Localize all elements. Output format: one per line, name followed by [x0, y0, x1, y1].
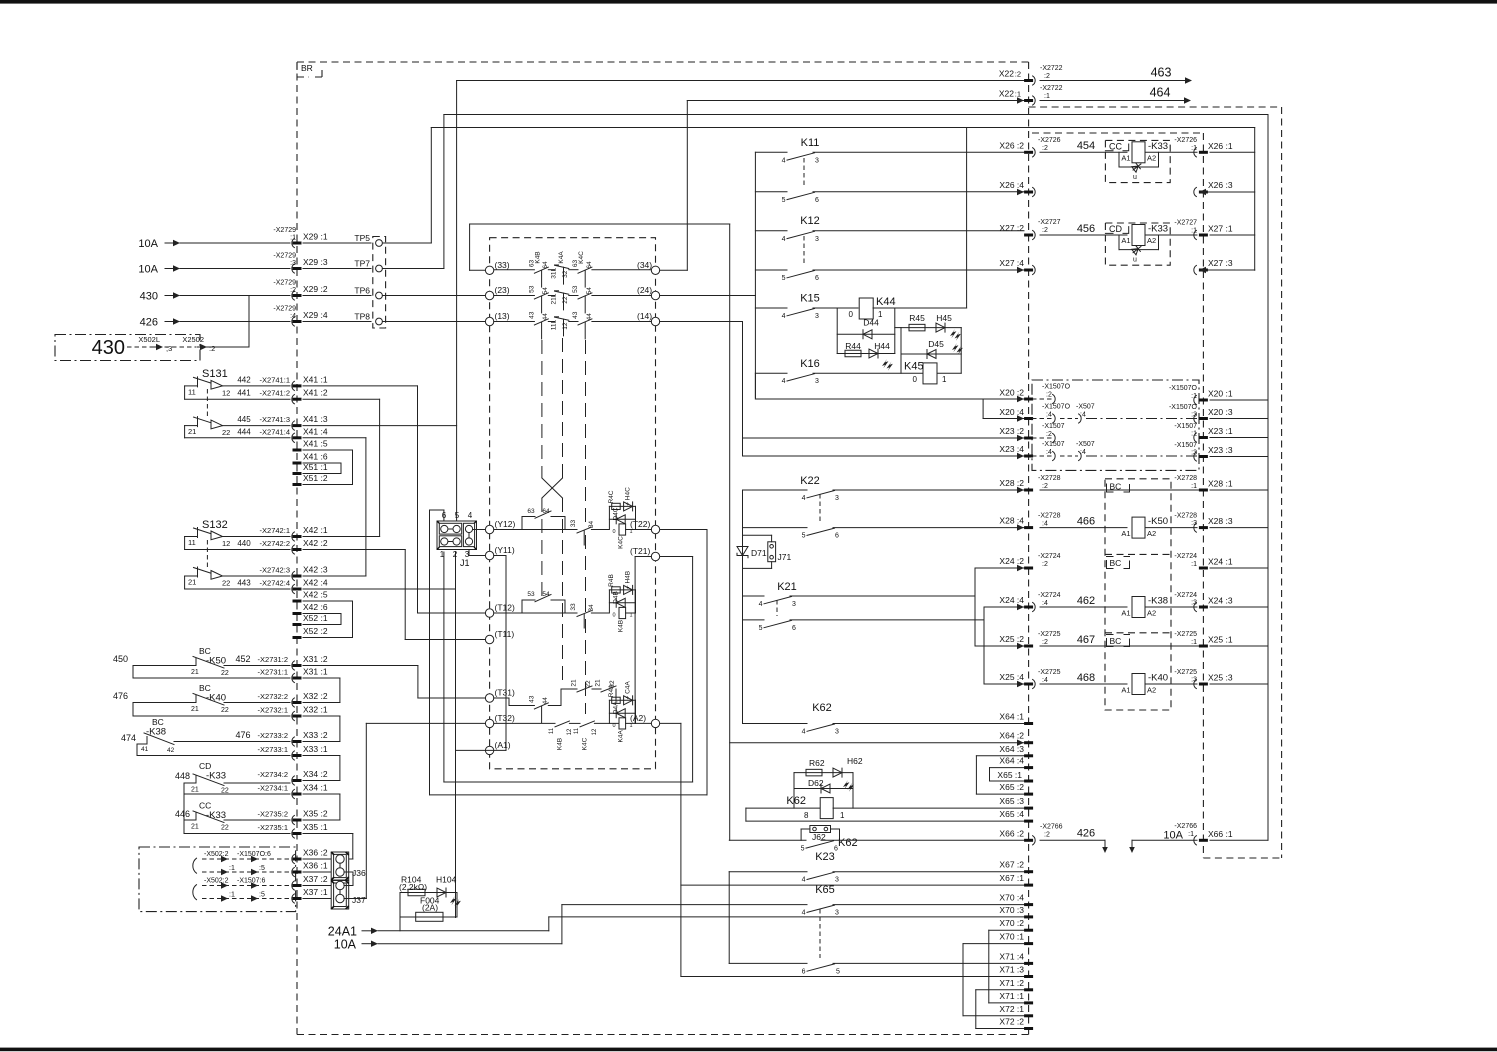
svg-text:H104: H104	[436, 875, 457, 885]
riser A2 to X71:3	[660, 722, 681, 724]
top border bar	[0, 0, 1497, 4]
svg-text:-X2731:1: -X2731:1	[258, 668, 288, 677]
svg-text::1: :1	[1044, 93, 1050, 100]
svg-text:X42 :2: X42 :2	[303, 538, 328, 548]
svg-text:X33 :1: X33 :1	[303, 744, 328, 754]
right rail x1268 down	[1267, 115, 1269, 841]
svg-text:-X2725: -X2725	[1038, 631, 1061, 638]
bracket X33 rows	[136, 744, 138, 756]
svg-text:X28 :2: X28 :2	[999, 478, 1024, 488]
svg-text::2: :2	[1042, 145, 1048, 152]
supply rail y127 from TP5	[431, 127, 1254, 129]
svg-text:X70 :3: X70 :3	[999, 905, 1024, 915]
svg-text:H44: H44	[874, 341, 890, 351]
wire X22:2 row to 463	[457, 80, 1024, 82]
svg-text:24A1: 24A1	[328, 925, 357, 939]
relay coil K33 upper	[1132, 142, 1145, 163]
row 782 to T21 riser	[444, 781, 693, 783]
svg-text:CC: CC	[199, 801, 211, 811]
K44 riser to rail127	[966, 128, 968, 309]
svg-text:X66 :1: X66 :1	[1208, 829, 1233, 839]
svg-text:-X2741:1: -X2741:1	[260, 375, 290, 384]
K22 contact 5-6	[743, 527, 808, 529]
svg-text:21: 21	[191, 824, 199, 831]
svg-text:K62: K62	[812, 702, 832, 714]
svg-text:R4A: R4A	[608, 684, 615, 697]
wire X65:2	[976, 793, 1024, 795]
stub X41:6	[293, 462, 302, 465]
X502 dash-dot harness box lower left	[139, 847, 296, 912]
svg-text:42: 42	[167, 747, 175, 754]
svg-text:(T21): (T21)	[630, 546, 650, 556]
svg-text:-X2729: -X2729	[273, 227, 296, 234]
loop X41:6 to X51:1	[340, 463, 342, 474]
K62 contact 5-6	[729, 839, 806, 841]
svg-text:3: 3	[835, 495, 839, 502]
svg-text:0: 0	[612, 613, 615, 619]
svg-text:4: 4	[802, 729, 806, 736]
wire X20:4 row	[983, 418, 1024, 420]
bracket X71:2 X72:2	[975, 990, 977, 1029]
wire X25:4 row	[984, 683, 1024, 685]
svg-text:BC: BC	[1110, 636, 1122, 646]
svg-text:X26 :3: X26 :3	[1208, 180, 1233, 190]
svg-text:X36 :2: X36 :2	[303, 848, 328, 858]
svg-text:41: 41	[141, 746, 149, 753]
svg-text:3: 3	[815, 378, 819, 385]
BC tab K50	[1107, 484, 1130, 492]
svg-text:K21: K21	[777, 581, 797, 593]
test point block TP5-TP8	[373, 237, 386, 329]
row extensions from left connectors to risers	[303, 385, 418, 387]
svg-text:CD: CD	[1109, 224, 1122, 234]
wire TP7 up to rail 114	[382, 268, 444, 270]
BR label tab	[297, 62, 322, 77]
svg-text:X42 :6: X42 :6	[303, 602, 328, 612]
jumper J62	[810, 826, 831, 833]
row T12 left from riser	[418, 612, 486, 614]
stub X41:5	[293, 449, 302, 452]
svg-text:X20 :2: X20 :2	[999, 387, 1024, 397]
svg-text:K65: K65	[815, 884, 835, 896]
svg-text:-K33: -K33	[1148, 141, 1168, 152]
svg-text:J37: J37	[352, 895, 366, 905]
svg-text:BC: BC	[152, 717, 164, 727]
svg-text:10A: 10A	[334, 938, 357, 952]
wire X24:4 row	[984, 606, 1024, 608]
svg-text:-K40: -K40	[1148, 672, 1168, 683]
row 794.9 to T22 riser	[430, 794, 708, 796]
svg-text:(Y11): (Y11)	[495, 545, 515, 555]
svg-text::2: :2	[1042, 227, 1048, 234]
switch S131 contacts 11-12	[185, 385, 198, 387]
wire X34:1	[184, 793, 290, 795]
svg-text:(2A): (2A)	[422, 903, 438, 913]
svg-text:22: 22	[222, 428, 230, 437]
svg-text:4: 4	[782, 157, 786, 164]
svg-text:K4B: K4B	[557, 738, 564, 750]
svg-text:A1: A1	[1121, 154, 1130, 163]
svg-text:X28 :4: X28 :4	[999, 516, 1024, 526]
svg-text:4: 4	[759, 601, 763, 608]
wire X64:3	[976, 755, 1024, 757]
svg-text:X34 :1: X34 :1	[303, 783, 328, 793]
wire X23:4 row	[743, 455, 1025, 457]
svg-text:34: 34	[588, 604, 595, 612]
svg-text:-X2731:2: -X2731:2	[258, 655, 288, 664]
svg-text:X64 :2: X64 :2	[999, 731, 1024, 741]
K44 suppression network box	[836, 308, 838, 354]
wire 34 up to X22:1	[660, 269, 688, 271]
wire X32:1	[133, 715, 290, 717]
relay coil K33 lower	[1132, 225, 1145, 246]
svg-text:446: 446	[175, 809, 190, 819]
svg-text:K23: K23	[815, 851, 835, 863]
svg-text:R62: R62	[809, 758, 825, 768]
wire X33:1	[137, 755, 290, 757]
svg-text:A1: A1	[1121, 529, 1130, 538]
svg-text::5: :5	[259, 865, 265, 872]
svg-text:X27 :2: X27 :2	[999, 223, 1024, 233]
node 33 stub	[470, 269, 486, 271]
svg-text::2: :2	[1042, 561, 1048, 568]
K21 linkage dashes	[776, 600, 778, 616]
svg-text:X65 :1: X65 :1	[997, 770, 1022, 780]
switch S131 contacts 21-22	[185, 425, 198, 427]
svg-text:X27 :3: X27 :3	[1208, 258, 1233, 268]
svg-text:-X2728: -X2728	[1174, 475, 1197, 482]
svg-text:X27 :4: X27 :4	[999, 258, 1024, 268]
svg-text:X28 :1: X28 :1	[1208, 479, 1233, 489]
svg-text:476: 476	[235, 730, 250, 740]
svg-text:4: 4	[802, 910, 806, 917]
bracket X64:4 X65:1	[989, 768, 991, 781]
svg-text:X70 :1: X70 :1	[999, 932, 1024, 942]
right rail x1255 down	[1254, 128, 1256, 271]
svg-text:53: 53	[527, 591, 535, 598]
svg-text:6: 6	[802, 968, 806, 975]
svg-text:X71 :2: X71 :2	[999, 978, 1024, 988]
svg-text:2: 2	[453, 550, 458, 559]
svg-text:-X502:2: -X502:2	[204, 878, 229, 885]
svg-text:X72 :1: X72 :1	[999, 1004, 1024, 1014]
svg-text::1: :1	[1191, 561, 1197, 568]
svg-text::5: :5	[259, 892, 265, 899]
svg-text:X34 :2: X34 :2	[303, 769, 328, 779]
relay coil K50	[1040, 527, 1127, 529]
svg-text:X2502: X2502	[182, 335, 204, 344]
svg-text:-X2766: -X2766	[1040, 824, 1063, 831]
svg-text::2: :2	[1042, 483, 1048, 490]
svg-text:K4B: K4B	[535, 251, 542, 263]
svg-text:X41 :4: X41 :4	[303, 426, 328, 436]
svg-text:D4A: D4A	[613, 701, 620, 714]
svg-text:X41 :5: X41 :5	[303, 439, 328, 449]
svg-text:448: 448	[175, 771, 190, 781]
svg-text:(A2): (A2)	[630, 713, 646, 723]
svg-text:X33 :2: X33 :2	[303, 730, 328, 740]
svg-text:K4C: K4C	[578, 251, 585, 264]
svg-text:X36 :1: X36 :1	[303, 861, 328, 871]
svg-text:X35 :1: X35 :1	[303, 822, 328, 832]
wire X20:2 row	[754, 373, 756, 399]
pair parens	[193, 858, 197, 873]
svg-text::1: :1	[1191, 639, 1197, 646]
svg-text:(24): (24)	[637, 285, 652, 295]
BR enclosure dashed box	[296, 62, 298, 1035]
svg-text:21: 21	[571, 679, 578, 687]
svg-text:6: 6	[792, 625, 796, 632]
svg-text::2: :2	[1044, 73, 1050, 80]
svg-text:-X2729: -X2729	[273, 306, 296, 313]
K22 linkage dashes	[819, 494, 821, 524]
link J36 to J37	[344, 871, 353, 873]
svg-text:X23 :1: X23 :1	[1208, 426, 1233, 436]
svg-text:u: u	[1133, 174, 1137, 181]
K21 contact 5-6	[743, 619, 765, 621]
svg-text:X41 :6: X41 :6	[303, 452, 328, 462]
svg-text:K22: K22	[800, 475, 820, 487]
svg-text::1: :1	[290, 235, 296, 242]
svg-text:4: 4	[782, 378, 786, 385]
stub X52:2	[293, 636, 302, 639]
svg-text:3: 3	[815, 157, 819, 164]
svg-text:BC: BC	[199, 683, 211, 693]
svg-text:X25 :2: X25 :2	[999, 634, 1024, 644]
svg-text:X42 :5: X42 :5	[303, 590, 328, 600]
svg-text::2: :2	[1044, 832, 1050, 839]
svg-text:12: 12	[562, 322, 569, 330]
svg-text:BC: BC	[1110, 482, 1122, 492]
svg-text:12: 12	[592, 728, 598, 735]
svg-text:-X2733:1: -X2733:1	[258, 745, 288, 754]
svg-text:444: 444	[237, 427, 251, 436]
wire X24:2	[975, 567, 1024, 569]
stub X42:5	[293, 600, 302, 603]
svg-text:-X1507O: -X1507O	[1169, 385, 1198, 392]
wire X70:1	[963, 943, 1024, 945]
svg-text:33: 33	[570, 603, 577, 611]
svg-text:X64 :1: X64 :1	[999, 712, 1024, 722]
svg-text:463: 463	[1151, 66, 1172, 80]
svg-text:-X2726: -X2726	[1038, 137, 1061, 144]
svg-text:44: 44	[586, 313, 593, 321]
svg-text:12: 12	[222, 539, 230, 548]
svg-text:31L: 31L	[550, 267, 557, 278]
svg-text:467: 467	[1077, 634, 1095, 646]
svg-text:-X2728: -X2728	[1174, 513, 1197, 520]
BC tab K38	[1107, 557, 1130, 569]
svg-text::3: :3	[290, 260, 296, 267]
riser T32 row to J37	[344, 898, 366, 900]
svg-text:-X2727: -X2727	[1174, 220, 1197, 227]
svg-text::2: :2	[1046, 431, 1052, 438]
svg-text:K44: K44	[876, 296, 896, 308]
svg-text:33: 33	[570, 520, 577, 528]
svg-text:BC: BC	[199, 646, 211, 656]
svg-text::1: :1	[1188, 831, 1194, 838]
svg-text:-K38: -K38	[146, 727, 166, 738]
row X64:2 elbow from node 33	[469, 224, 471, 270]
svg-text:S131: S131	[202, 368, 228, 380]
svg-text:-X2724: -X2724	[1038, 553, 1061, 560]
svg-text:-X2725: -X2725	[1038, 669, 1061, 676]
svg-text:TP7: TP7	[354, 258, 370, 268]
svg-text:450: 450	[113, 654, 128, 664]
svg-text:3: 3	[792, 601, 796, 608]
connectors X36 X37	[292, 854, 295, 863]
svg-text:X31 :2: X31 :2	[303, 654, 328, 664]
loop X42:6 to X52:1	[340, 614, 342, 625]
svg-text:K4A: K4A	[617, 730, 624, 743]
R104 box verticals	[399, 893, 401, 931]
row T11 stub	[405, 639, 485, 641]
svg-text::2: :2	[1046, 391, 1052, 398]
svg-text:6: 6	[815, 275, 819, 282]
svg-text:5: 5	[455, 511, 460, 520]
svg-text:21L: 21L	[550, 293, 557, 304]
linkage crossover	[542, 478, 563, 498]
svg-text:X29 :1: X29 :1	[303, 232, 328, 242]
svg-text:(Y12): (Y12)	[495, 519, 516, 529]
svg-text:5: 5	[782, 275, 786, 282]
svg-text:-X2741:4: -X2741:4	[260, 427, 290, 436]
svg-text:A2: A2	[1147, 236, 1156, 245]
svg-text:R45: R45	[909, 313, 925, 323]
brackets chaining X31..X35 rows	[339, 678, 341, 703]
svg-text:64: 64	[542, 261, 549, 269]
svg-text:J1: J1	[460, 558, 470, 568]
connector X29:4	[292, 317, 295, 326]
svg-text:K12: K12	[800, 215, 820, 227]
svg-text:D4B: D4B	[613, 591, 620, 604]
relay coil K44	[859, 298, 873, 319]
K65 linkage dashes	[819, 909, 821, 958]
svg-text:-X2732:1: -X2732:1	[258, 706, 288, 715]
svg-text:X41 :2: X41 :2	[303, 388, 328, 398]
svg-text:-X2727: -X2727	[1038, 219, 1061, 226]
svg-text:468: 468	[1077, 672, 1095, 684]
row 23-24 contacts	[494, 295, 535, 297]
svg-text:3: 3	[835, 729, 839, 736]
svg-text:430: 430	[140, 291, 158, 303]
svg-text:D44: D44	[863, 318, 879, 328]
svg-text:(T31): (T31)	[495, 688, 515, 698]
BC tab K40	[1107, 635, 1130, 647]
svg-text:464: 464	[1150, 86, 1171, 100]
svg-text:54: 54	[586, 287, 593, 295]
K45 suppression network box	[900, 328, 902, 374]
svg-text:22: 22	[585, 680, 592, 688]
wire X65:4	[746, 820, 1024, 822]
raised bridge contact 63-64	[521, 517, 523, 530]
svg-text:443: 443	[237, 579, 251, 588]
svg-text:-X2725: -X2725	[1174, 669, 1197, 676]
svg-text:5: 5	[836, 968, 840, 975]
svg-text:X42 :1: X42 :1	[303, 525, 328, 535]
svg-text:X71 :3: X71 :3	[999, 965, 1024, 975]
svg-text:(T32): (T32)	[495, 713, 515, 723]
svg-text::2: :2	[1015, 70, 1021, 79]
svg-text:X26 :1: X26 :1	[1208, 141, 1233, 151]
row T31 step to contact level	[494, 697, 509, 699]
K4 linkage long-dash columns	[541, 340, 543, 478]
svg-text::4: :4	[1080, 449, 1086, 456]
svg-text:426: 426	[1077, 828, 1095, 840]
svg-text::2: :2	[209, 344, 215, 353]
svg-text:4: 4	[802, 877, 806, 884]
svg-text:X65 :3: X65 :3	[999, 796, 1024, 806]
svg-text:21: 21	[595, 679, 602, 687]
bracket X70:1 X72:1	[962, 944, 964, 1016]
svg-text:X52 :1: X52 :1	[303, 613, 328, 623]
bottom border bar	[0, 1048, 1497, 1052]
loop X42:5 to X52:2	[352, 601, 354, 638]
connector X29:1	[292, 238, 295, 247]
svg-text:43: 43	[528, 311, 535, 319]
svg-text:X70 :2: X70 :2	[999, 918, 1024, 928]
svg-text:34: 34	[588, 521, 595, 529]
wire X25:2	[975, 645, 1024, 647]
riser X22:2 X41:3 J1 pin5	[456, 81, 458, 524]
svg-text:H62: H62	[847, 756, 863, 766]
svg-text:-X1507O: -X1507O	[1169, 404, 1198, 411]
svg-text:54: 54	[542, 287, 549, 295]
svg-text:0: 0	[849, 310, 854, 319]
svg-text:-X2732:2: -X2732:2	[258, 692, 288, 701]
switch S132 contacts 21-22	[185, 575, 198, 577]
wire X70:2	[989, 929, 1024, 931]
svg-text:X29 :4: X29 :4	[303, 310, 328, 320]
svg-text:X31 :1: X31 :1	[303, 667, 328, 677]
svg-text:1: 1	[942, 375, 947, 384]
Y12 stub to J1	[473, 529, 486, 531]
svg-text:12: 12	[222, 388, 230, 397]
bracket X65:3 X65:4	[745, 808, 747, 821]
riser J1 pin2 to A1 and H104	[455, 552, 457, 918]
svg-text:;3: ;3	[166, 344, 172, 353]
svg-text:-X2722: -X2722	[1040, 85, 1063, 92]
svg-text:-X2728: -X2728	[1038, 513, 1061, 520]
K11 linkage dashes	[803, 158, 805, 186]
right cab enclosure dashed box	[1029, 106, 1282, 108]
svg-text:22: 22	[222, 579, 230, 588]
row T32 left to riser	[366, 722, 485, 724]
svg-text:44: 44	[542, 697, 549, 705]
svg-text:462: 462	[1077, 595, 1095, 607]
svg-text:54: 54	[542, 591, 550, 598]
svg-text:3: 3	[835, 910, 839, 917]
svg-text:X22: X22	[999, 89, 1014, 99]
430 dash-dot box	[55, 335, 200, 361]
svg-text:X22: X22	[999, 69, 1014, 79]
svg-text:21: 21	[188, 427, 196, 436]
svg-text:X502L: X502L	[138, 335, 160, 344]
svg-text:21: 21	[191, 669, 199, 676]
svg-text:X20 :4: X20 :4	[999, 407, 1024, 417]
svg-text:11L: 11L	[550, 320, 557, 331]
svg-text:X41 :1: X41 :1	[303, 374, 328, 384]
K33 suppression loop	[1118, 152, 1120, 167]
svg-text:-X507: -X507	[1076, 441, 1095, 448]
svg-text:X64 :3: X64 :3	[999, 744, 1024, 754]
svg-text:-X2742:4: -X2742:4	[260, 579, 290, 588]
jumper block J37	[331, 881, 349, 910]
svg-text:K4A: K4A	[558, 251, 565, 264]
relay coil K45	[923, 363, 937, 384]
wire X71:3	[681, 976, 1024, 978]
wire TP5 up to rail 127	[382, 242, 431, 244]
